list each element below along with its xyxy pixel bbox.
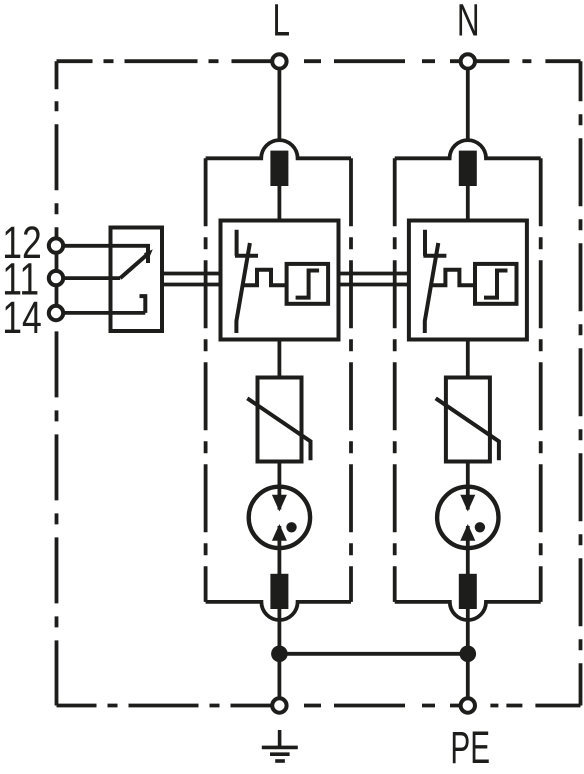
module 2 bottom plug contact bbox=[459, 574, 477, 609]
junction node channel 1 bbox=[271, 646, 288, 663]
wire U1 to varistor RV1 bbox=[277, 340, 281, 378]
wire plug to disconnector U2 bbox=[466, 186, 470, 221]
terminal 11 bbox=[49, 271, 63, 285]
disconnector with thermal trip U1 bbox=[221, 221, 339, 340]
wire junction 1 to earth terminal bbox=[277, 654, 281, 697]
module 1 bottom plug contact bbox=[270, 574, 288, 609]
PE bus wire between junctions bbox=[279, 652, 467, 656]
wire spark gap to module 1 bottom plug bbox=[277, 526, 281, 574]
svg-text:N: N bbox=[457, 0, 480, 46]
wire junction 2 to PE terminal bbox=[466, 654, 470, 697]
protection module 1 boundary (dashed sides, solid edges with plug bumps) bbox=[206, 140, 351, 620]
terminal PE bbox=[461, 698, 475, 712]
wire plug to PE junction bbox=[466, 609, 470, 654]
wire terminal 11 to contact bbox=[63, 276, 120, 280]
terminal N bbox=[461, 54, 475, 68]
wire spark gap to module 2 bottom plug bbox=[466, 526, 470, 574]
terminal 14 bbox=[49, 306, 63, 320]
terminal 12 bbox=[49, 238, 63, 252]
outer device enclosure border (dash-dot) bbox=[57, 61, 581, 705]
varistor RV1 bbox=[247, 378, 310, 462]
wire N terminal to module 2 plug bbox=[466, 71, 470, 143]
wire plug to PE junction bbox=[277, 609, 281, 654]
module 2 top plug contact bbox=[459, 151, 477, 186]
mechanical linkage S1 to U1 (double line) bbox=[162, 274, 221, 285]
wire terminal 12 to contact bbox=[63, 244, 150, 248]
protection module 2 boundary (dashed sides, solid edges with plug bumps) bbox=[395, 140, 541, 620]
wire U2 to varistor RV2 bbox=[466, 340, 470, 378]
junction node channel 2 bbox=[460, 646, 477, 663]
disconnector with thermal trip U2 bbox=[409, 221, 527, 340]
earth terminal bbox=[272, 698, 286, 712]
ground symbol bbox=[262, 730, 298, 761]
mechanical linkage U1 to U2 (double line) bbox=[339, 274, 409, 285]
gas discharge tube (spark gap) F1 bbox=[249, 487, 310, 548]
wire terminal 14 to contact bbox=[63, 311, 145, 315]
module 1 top plug contact bbox=[270, 151, 288, 186]
wire RV2 to gas discharge tube bbox=[466, 462, 470, 510]
svg-text:PE: PE bbox=[450, 723, 490, 774]
wire RV1 to gas discharge tube bbox=[277, 462, 281, 510]
wire plug to disconnector U1 bbox=[277, 186, 281, 221]
terminal L bbox=[272, 54, 286, 68]
svg-text:L: L bbox=[273, 0, 291, 46]
wire L terminal to module 1 plug bbox=[277, 71, 281, 143]
gas discharge tube (spark gap) F2 bbox=[437, 487, 498, 548]
remote signalling changeover contact S1 bbox=[111, 228, 163, 332]
svg-text:14: 14 bbox=[2, 292, 42, 343]
varistor RV2 bbox=[436, 378, 499, 462]
